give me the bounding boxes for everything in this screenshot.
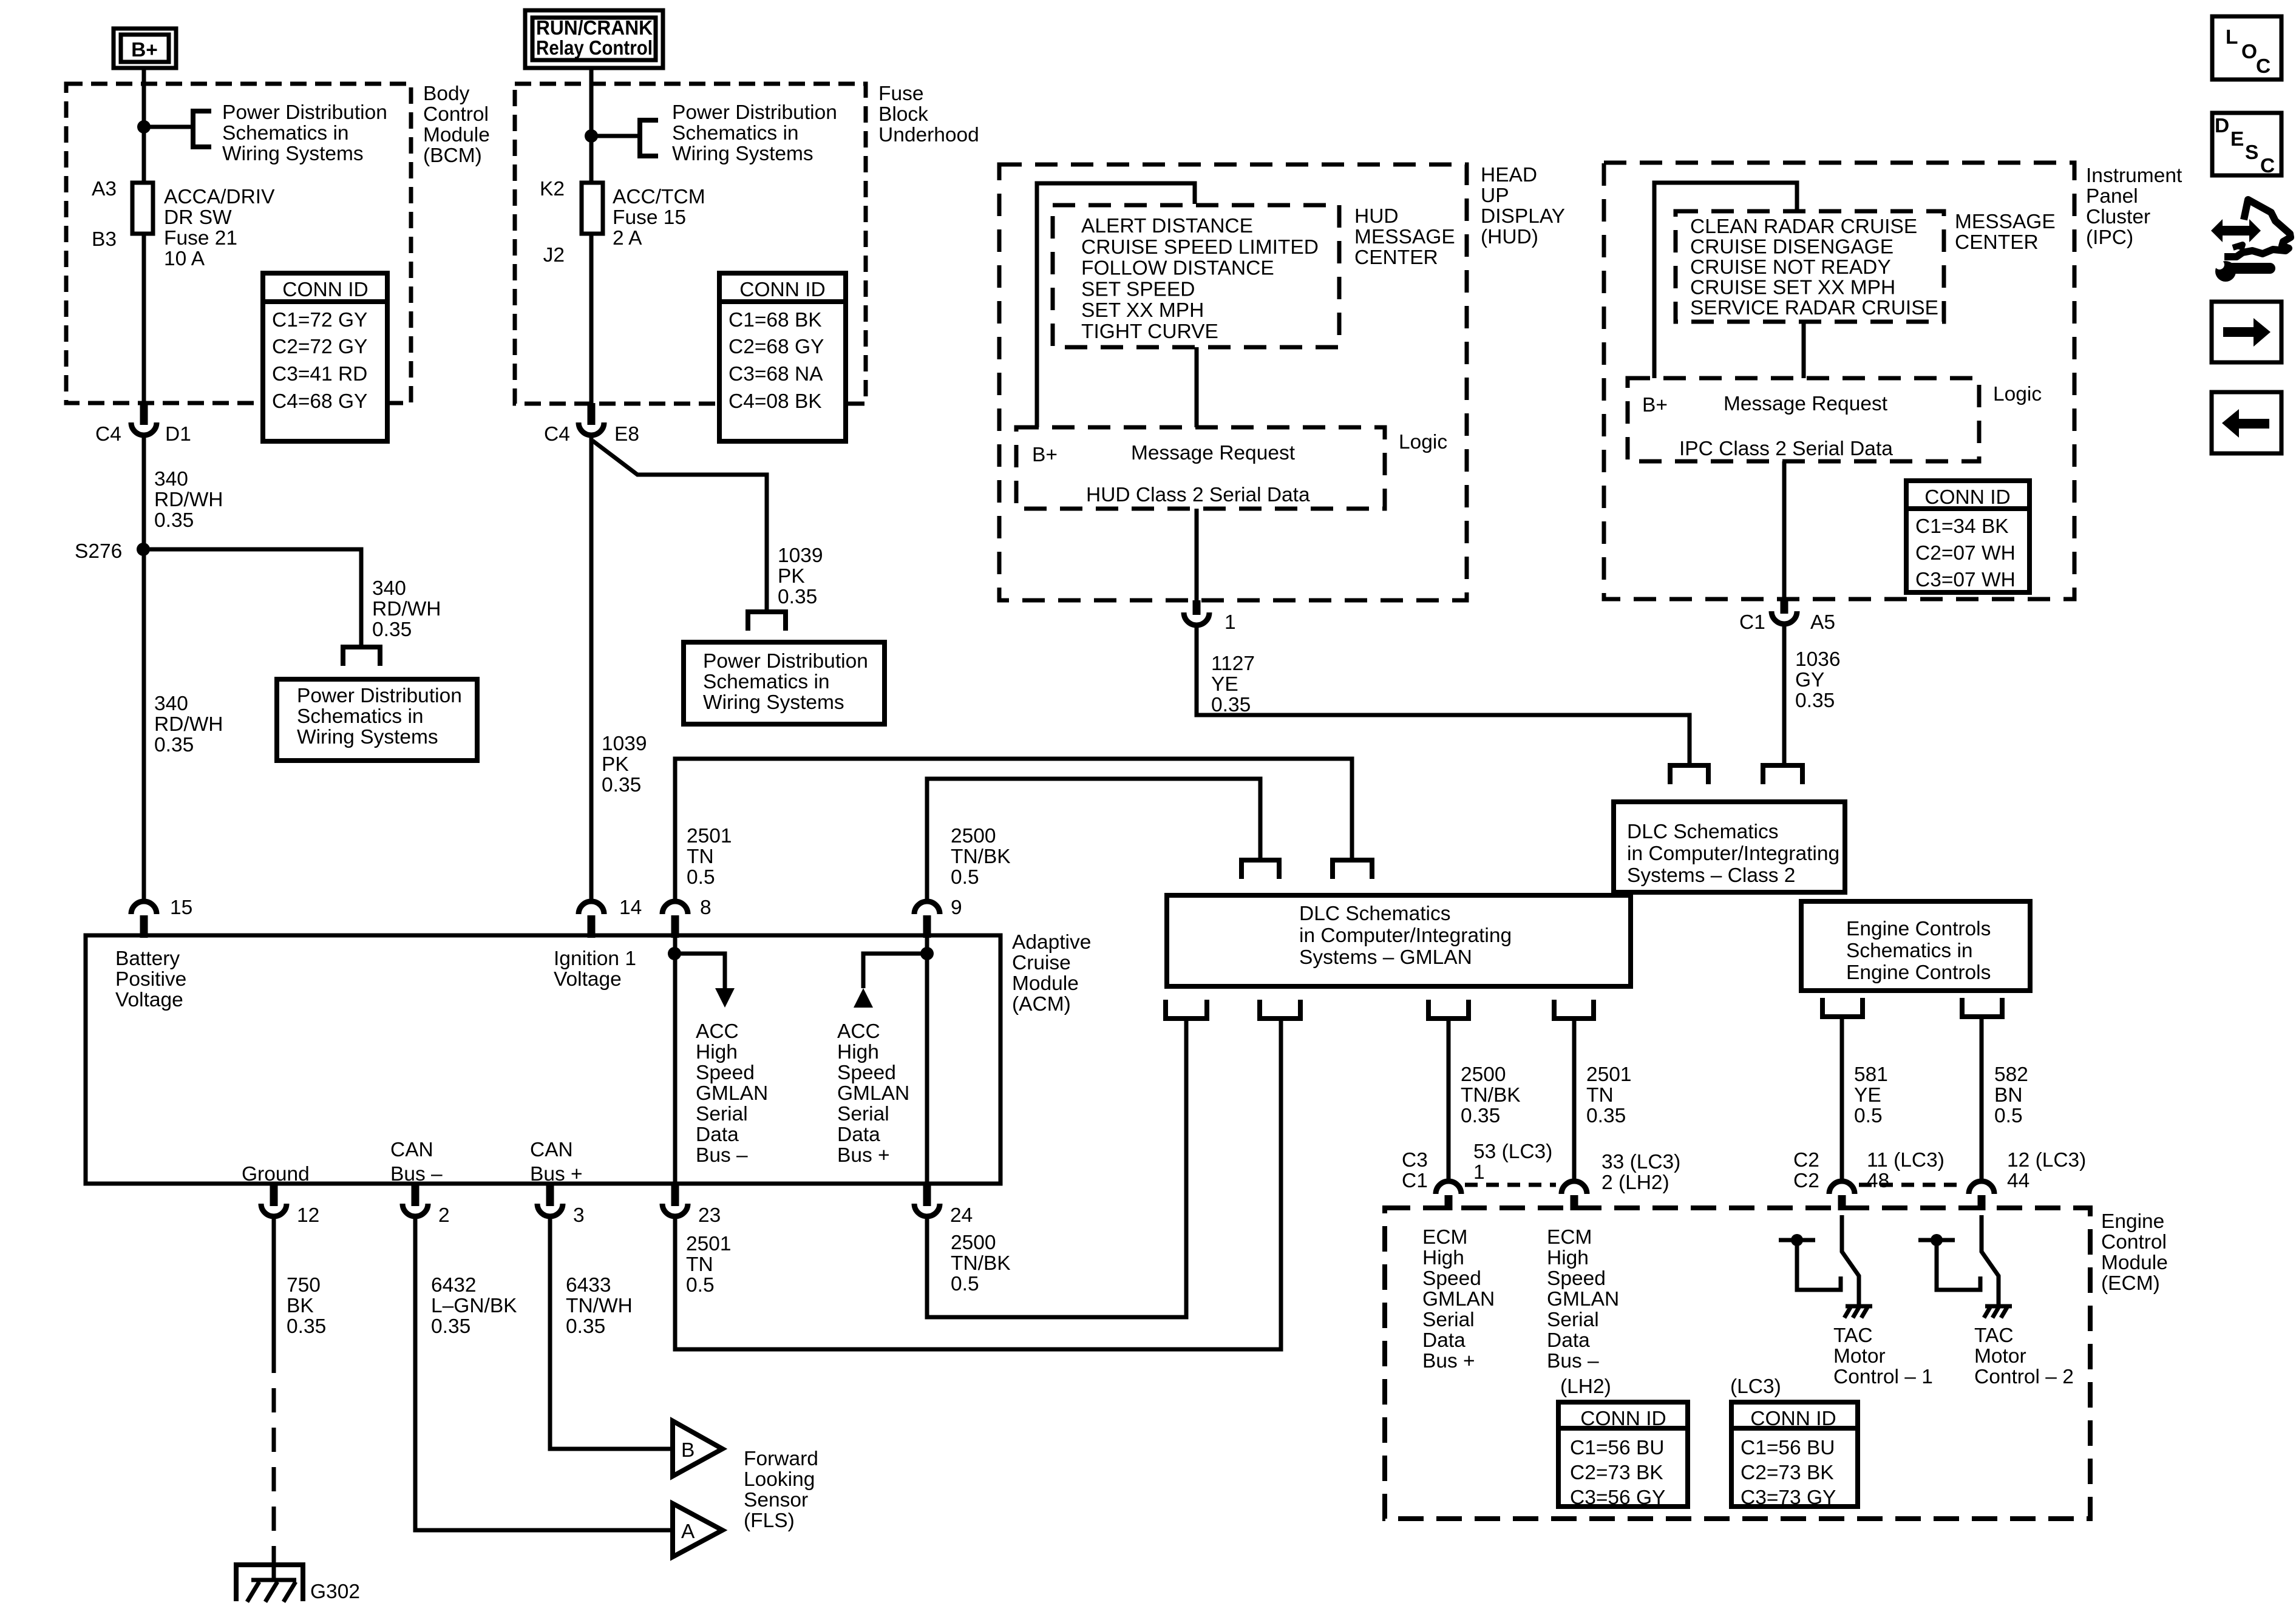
off-page reference (1127 YE into DLC class 2) bbox=[1670, 765, 1708, 784]
CONN ID table (LC3) bbox=[1731, 1402, 1858, 1509]
svg-text:Module: Module bbox=[423, 124, 490, 146]
svg-text:C2: C2 bbox=[1793, 1149, 1819, 1171]
svg-text:0.5: 0.5 bbox=[687, 866, 715, 889]
svg-text:CLEAN RADAR CRUISE: CLEAN RADAR CRUISE bbox=[1690, 215, 1917, 238]
svg-text:Fuse 21: Fuse 21 bbox=[164, 227, 237, 249]
TAC motor control - 2 driver circuit bbox=[1918, 1215, 2012, 1318]
svg-text:C2=73 BK: C2=73 BK bbox=[1570, 1462, 1663, 1484]
svg-text:48: 48 bbox=[1867, 1170, 1889, 1192]
svg-text:15: 15 bbox=[170, 897, 192, 919]
wire branch to power distribution reference bbox=[144, 125, 193, 129]
junction node in BCM bbox=[137, 120, 151, 134]
wire label 2500 TN/BK upper bbox=[951, 825, 1011, 889]
forward arrow icon box bbox=[2212, 302, 2281, 362]
svg-text:ACC: ACC bbox=[837, 1020, 880, 1043]
svg-text:High: High bbox=[696, 1041, 738, 1063]
wire 6433 TN/WH from pin 3 to FLS B bbox=[550, 1218, 670, 1449]
svg-text:MESSAGE: MESSAGE bbox=[1955, 211, 2056, 233]
svg-text:Positive: Positive bbox=[115, 968, 186, 991]
svg-text:A: A bbox=[681, 1520, 695, 1543]
svg-text:Underhood: Underhood bbox=[878, 124, 979, 146]
wire label 6432 L-GN/BK bbox=[431, 1274, 517, 1338]
svg-text:Control – 2: Control – 2 bbox=[1974, 1366, 2074, 1388]
svg-text:ECM: ECM bbox=[1547, 1226, 1592, 1249]
svg-text:0.35: 0.35 bbox=[154, 734, 194, 756]
svg-text:Schematics in: Schematics in bbox=[222, 122, 349, 144]
svg-text:2500: 2500 bbox=[1461, 1063, 1506, 1086]
label ECM GMLAN bus + bbox=[1422, 1226, 1495, 1372]
DLC schematics GMLAN box bbox=[1167, 895, 1631, 986]
wire label 340 RD/WH upper bbox=[154, 468, 223, 532]
svg-text:C1=34 BK: C1=34 BK bbox=[1915, 515, 2009, 538]
ACM pin 12 connector bbox=[261, 1184, 287, 1216]
head up display dashed box bbox=[999, 164, 1467, 600]
svg-text:581: 581 bbox=[1854, 1063, 1888, 1086]
svg-text:3: 3 bbox=[573, 1204, 585, 1227]
svg-text:6432: 6432 bbox=[431, 1274, 477, 1297]
svg-text:RD/WH: RD/WH bbox=[372, 598, 441, 620]
svg-text:0.35: 0.35 bbox=[287, 1315, 326, 1338]
svg-text:Serial: Serial bbox=[696, 1103, 748, 1125]
wire 340 RD/WH down to splice S276 and ACM pin 15 bbox=[142, 436, 146, 900]
label power distribution schematics (fuse block) bbox=[672, 101, 837, 165]
CONN ID table (IPC) bbox=[1906, 481, 2029, 592]
svg-text:9: 9 bbox=[951, 897, 962, 919]
label ignition 1 voltage bbox=[554, 947, 636, 991]
svg-text:TN: TN bbox=[1586, 1084, 1614, 1107]
label message center (IPC) bbox=[1955, 211, 2056, 254]
svg-text:2 A: 2 A bbox=[613, 227, 642, 249]
svg-text:340: 340 bbox=[372, 577, 406, 600]
svg-text:10 A: 10 A bbox=[164, 248, 205, 270]
svg-text:GMLAN: GMLAN bbox=[1422, 1288, 1495, 1310]
svg-text:RUN/CRANK: RUN/CRANK bbox=[536, 17, 653, 39]
svg-text:CENTER: CENTER bbox=[1354, 246, 1438, 269]
svg-text:C1=72 GY: C1=72 GY bbox=[272, 309, 367, 331]
svg-text:Serial: Serial bbox=[1422, 1309, 1475, 1331]
svg-text:(BCM): (BCM) bbox=[423, 144, 482, 167]
ACM pin 8 connector bbox=[662, 901, 688, 938]
svg-text:B: B bbox=[681, 1439, 695, 1462]
off-page reference below engine controls (582 BN) bbox=[1962, 998, 2002, 1017]
svg-text:C3=56 GY: C3=56 GY bbox=[1570, 1486, 1665, 1509]
svg-text:2501: 2501 bbox=[1586, 1063, 1632, 1086]
svg-text:CRUISE SPEED LIMITED: CRUISE SPEED LIMITED bbox=[1081, 236, 1319, 259]
text power distribution box middle bbox=[703, 650, 868, 714]
svg-text:Control – 1: Control – 1 bbox=[1833, 1366, 1933, 1388]
label fuse 21 bbox=[164, 186, 275, 270]
svg-text:Wiring Systems: Wiring Systems bbox=[703, 691, 844, 714]
svg-text:Message Request: Message Request bbox=[1724, 393, 1888, 415]
svg-text:C3=07 WH: C3=07 WH bbox=[1915, 569, 2016, 591]
svg-text:Fuse 15: Fuse 15 bbox=[613, 206, 686, 229]
svg-text:0.35: 0.35 bbox=[778, 586, 817, 608]
wire label 582 BN bbox=[1994, 1063, 2028, 1127]
svg-text:PK: PK bbox=[602, 753, 629, 776]
svg-text:TIGHT CURVE: TIGHT CURVE bbox=[1081, 320, 1218, 343]
connector C4/D1 (BCM) bbox=[131, 403, 157, 435]
ACM pin 24 connector bbox=[914, 1184, 940, 1216]
svg-text:GMLAN: GMLAN bbox=[1547, 1288, 1619, 1310]
svg-text:ACCA/DRIV: ACCA/DRIV bbox=[164, 186, 275, 208]
svg-text:14: 14 bbox=[619, 897, 642, 919]
HUD message list dashed box bbox=[1053, 205, 1339, 347]
svg-text:E: E bbox=[2230, 128, 2244, 151]
text DLC schematics class 2 bbox=[1627, 821, 1839, 887]
svg-text:O: O bbox=[2241, 41, 2257, 63]
svg-text:C1: C1 bbox=[1402, 1170, 1428, 1192]
IPC message center text list bbox=[1690, 215, 1938, 319]
svg-text:CRUISE NOT READY: CRUISE NOT READY bbox=[1690, 256, 1891, 279]
wire label 6433 TN/WH bbox=[566, 1274, 633, 1338]
svg-text:(HUD): (HUD) bbox=[1481, 226, 1538, 248]
DESC icon box bbox=[2212, 113, 2281, 177]
svg-text:Cruise: Cruise bbox=[1012, 952, 1071, 974]
svg-text:ACC: ACC bbox=[696, 1020, 739, 1043]
label fuse block underhood bbox=[878, 83, 979, 146]
wire label 1039 PK upper bbox=[778, 544, 823, 608]
wire label 2500 TN/BK (ECM) bbox=[1461, 1063, 1521, 1127]
svg-text:C3=73 GY: C3=73 GY bbox=[1741, 1486, 1836, 1509]
wire 750 BK from pin 12 (solid part) bbox=[272, 1218, 276, 1349]
label CAN bus + (ACM) bbox=[530, 1139, 583, 1185]
svg-text:Block: Block bbox=[878, 103, 928, 126]
forward looking sensor triangle B bbox=[673, 1421, 722, 1476]
svg-text:Serial: Serial bbox=[1547, 1309, 1599, 1331]
svg-text:C2: C2 bbox=[1793, 1170, 1819, 1192]
off-page reference below GMLAN (to ACM pin 24) bbox=[1166, 1000, 1207, 1019]
svg-text:Module: Module bbox=[1012, 972, 1079, 995]
back arrow icon box bbox=[2212, 392, 2281, 453]
svg-text:2 (LH2): 2 (LH2) bbox=[1601, 1171, 1669, 1194]
body control module dashed box bbox=[66, 84, 411, 403]
wire 2500 TN/BK from pin 24 to GMLAN reference bbox=[927, 1020, 1186, 1317]
svg-text:BN: BN bbox=[1994, 1084, 2023, 1107]
svg-text:ALERT DISTANCE: ALERT DISTANCE bbox=[1081, 215, 1253, 237]
label adaptive cruise module bbox=[1012, 931, 1091, 1015]
svg-text:2501: 2501 bbox=[687, 825, 732, 847]
svg-text:Data: Data bbox=[1547, 1329, 1590, 1352]
off-page reference below GMLAN (2501 TN to ECM) bbox=[1554, 1000, 1594, 1019]
B+ power symbol box bbox=[114, 29, 176, 68]
svg-text:Battery: Battery bbox=[115, 947, 180, 970]
label TAC motor control 2 bbox=[1974, 1324, 2074, 1388]
svg-text:S: S bbox=[2245, 141, 2258, 164]
svg-text:HUD Class 2 Serial Data: HUD Class 2 Serial Data bbox=[1086, 484, 1310, 506]
wire HUD class 2 serial data to connector 1 bbox=[1195, 509, 1199, 600]
svg-text:Systems – GMLAN: Systems – GMLAN bbox=[1299, 946, 1472, 969]
svg-text:in Computer/Integrating: in Computer/Integrating bbox=[1299, 924, 1512, 947]
power distribution schematics box (left) bbox=[277, 679, 477, 761]
svg-text:Speed: Speed bbox=[1547, 1267, 1606, 1290]
svg-text:0.5: 0.5 bbox=[951, 866, 979, 889]
svg-text:(FLS): (FLS) bbox=[744, 1510, 795, 1532]
off-page reference above power distribution box (1039 PK) bbox=[748, 612, 786, 631]
svg-text:23: 23 bbox=[698, 1204, 721, 1227]
wire branch to power distribution reference (fuse block) bbox=[591, 134, 640, 138]
svg-text:Schematics in: Schematics in bbox=[703, 671, 830, 693]
svg-text:BK: BK bbox=[287, 1295, 314, 1317]
svg-text:B+: B+ bbox=[131, 39, 158, 61]
svg-text:Power Distribution: Power Distribution bbox=[672, 101, 837, 124]
label ACC GMLAN bus - (ACM) bbox=[696, 1020, 768, 1167]
svg-text:B3: B3 bbox=[92, 228, 117, 251]
svg-text:Wiring Systems: Wiring Systems bbox=[297, 726, 438, 748]
svg-text:Bus –: Bus – bbox=[1547, 1350, 1599, 1372]
svg-text:HEAD: HEAD bbox=[1481, 164, 1537, 186]
wire HUD message list to logic box bbox=[1195, 347, 1199, 427]
HUD message center text list bbox=[1081, 215, 1319, 343]
svg-text:CRUISE SET XX MPH: CRUISE SET XX MPH bbox=[1690, 277, 1895, 299]
ACM pin 9 connector bbox=[914, 901, 940, 938]
svg-text:Logic: Logic bbox=[1399, 431, 1447, 453]
svg-text:53 (LC3): 53 (LC3) bbox=[1473, 1141, 1552, 1163]
ECM connector pin 12 bbox=[1969, 1181, 1994, 1210]
svg-text:(LC3): (LC3) bbox=[1730, 1375, 1781, 1398]
wire 1036 GY to DLC class 2 reference bbox=[1782, 624, 1787, 765]
svg-text:1: 1 bbox=[1224, 611, 1236, 634]
wire branch from S276 to power distribution bbox=[143, 549, 361, 647]
svg-text:(ECM): (ECM) bbox=[2101, 1272, 2160, 1295]
label fuse 15 bbox=[613, 186, 705, 249]
svg-text:0.35: 0.35 bbox=[1586, 1105, 1626, 1127]
svg-text:Schematics in: Schematics in bbox=[672, 122, 799, 144]
off-page reference below engine controls (581 YE) bbox=[1822, 998, 1863, 1017]
dashed connector line between ECM TAC connectors bbox=[1859, 1183, 1965, 1187]
fuse block underhood dashed box bbox=[515, 84, 866, 404]
svg-text:YE: YE bbox=[1211, 673, 1238, 696]
svg-text:0.35: 0.35 bbox=[431, 1315, 470, 1338]
svg-text:(ACM): (ACM) bbox=[1012, 993, 1071, 1015]
text power distribution schematics box bbox=[297, 685, 462, 748]
svg-text:2500: 2500 bbox=[951, 1232, 996, 1254]
svg-text:0.35: 0.35 bbox=[602, 774, 641, 796]
svg-text:340: 340 bbox=[154, 693, 188, 715]
connector C1/A5 (IPC) bbox=[1771, 599, 1797, 624]
svg-text:Speed: Speed bbox=[696, 1062, 755, 1084]
svg-text:CONN ID: CONN ID bbox=[739, 279, 825, 301]
ACM internal junction (bus +) bbox=[920, 947, 934, 960]
off-page reference into DLC GMLAN (2500 TN/BK) bbox=[1241, 860, 1279, 879]
off-page reference symbol (fuse block power distribution) bbox=[640, 120, 658, 156]
svg-text:0.5: 0.5 bbox=[951, 1273, 979, 1295]
svg-text:Module: Module bbox=[2101, 1252, 2168, 1274]
svg-text:Power Distribution: Power Distribution bbox=[297, 685, 462, 707]
svg-text:CAN: CAN bbox=[390, 1139, 433, 1161]
svg-text:CONN ID: CONN ID bbox=[1924, 486, 2010, 509]
IPC logic dashed box bbox=[1628, 378, 1979, 461]
svg-text:0.35: 0.35 bbox=[1461, 1105, 1500, 1127]
wire label 340 RD/WH lower bbox=[154, 693, 223, 756]
svg-text:E8: E8 bbox=[614, 423, 639, 446]
svg-text:0.35: 0.35 bbox=[1211, 694, 1251, 716]
svg-text:PK: PK bbox=[778, 565, 805, 588]
off-page reference below GMLAN (to ACM pin 23) bbox=[1260, 1000, 1300, 1019]
svg-text:Engine: Engine bbox=[2101, 1210, 2164, 1233]
svg-text:1: 1 bbox=[1473, 1161, 1485, 1184]
svg-text:B+: B+ bbox=[1642, 394, 1668, 416]
dashed connector line between ECM serial data connectors bbox=[1465, 1183, 1556, 1187]
wire 2501 TN from pin 8 up and over to GMLAN reference bbox=[675, 759, 1352, 900]
wire 582 BN engine controls to ECM bbox=[1980, 1017, 1984, 1179]
svg-text:Serial: Serial bbox=[837, 1103, 889, 1125]
wire label 2500 TN/BK lower bbox=[951, 1232, 1011, 1295]
wire 2500 TN/BK from pin 9 up and over to GMLAN reference bbox=[927, 779, 1260, 900]
wire 1039 PK from C4/E8 to ACM pin 14 bbox=[589, 436, 594, 900]
svg-text:C4: C4 bbox=[544, 423, 570, 446]
svg-text:0.5: 0.5 bbox=[686, 1274, 715, 1297]
svg-text:Bus +: Bus + bbox=[837, 1144, 890, 1167]
svg-text:Schematics in: Schematics in bbox=[297, 705, 424, 728]
off-page reference below GMLAN (2500 TN/BK to ECM) bbox=[1428, 1000, 1469, 1019]
ground G302 symbol bbox=[236, 1565, 303, 1602]
svg-text:Bus +: Bus + bbox=[530, 1163, 583, 1185]
svg-text:ACC/TCM: ACC/TCM bbox=[613, 186, 705, 208]
svg-text:Control: Control bbox=[423, 103, 489, 126]
wire label 1036 GY bbox=[1795, 648, 1841, 712]
svg-text:High: High bbox=[1547, 1247, 1589, 1269]
svg-text:Power Distribution: Power Distribution bbox=[222, 101, 387, 124]
vehicle with wrench icon bbox=[2211, 200, 2291, 282]
svg-text:YE: YE bbox=[1854, 1084, 1881, 1107]
label body control module bbox=[423, 83, 490, 167]
svg-text:CENTER: CENTER bbox=[1955, 231, 2039, 254]
svg-text:FOLLOW DISTANCE: FOLLOW DISTANCE bbox=[1081, 257, 1274, 280]
svg-text:Cluster: Cluster bbox=[2086, 206, 2150, 228]
engine controls schematics box bbox=[1801, 901, 2030, 991]
svg-text:UP: UP bbox=[1481, 185, 1509, 207]
ECM connector pin 33 bbox=[1561, 1181, 1587, 1210]
ACM internal junction (bus -) bbox=[668, 947, 681, 960]
IPC message list dashed box bbox=[1676, 211, 1944, 322]
svg-text:Relay Control: Relay Control bbox=[536, 37, 653, 59]
power distribution schematics box (middle) bbox=[684, 642, 885, 724]
adaptive cruise module box bbox=[86, 935, 1000, 1184]
svg-text:Fuse: Fuse bbox=[878, 83, 923, 105]
svg-text:0.35: 0.35 bbox=[154, 509, 194, 532]
svg-text:0.35: 0.35 bbox=[372, 619, 412, 641]
label power distribution schematics (BCM) bbox=[222, 101, 387, 165]
label forward looking sensor bbox=[744, 1448, 818, 1532]
svg-text:DLC Schematics: DLC Schematics bbox=[1627, 821, 1778, 843]
svg-text:Schematics in: Schematics in bbox=[1846, 940, 1973, 962]
label TAC motor control 1 bbox=[1833, 1324, 1933, 1388]
svg-text:CRUISE DISENGAGE: CRUISE DISENGAGE bbox=[1690, 236, 1894, 259]
svg-text:GY: GY bbox=[1795, 669, 1824, 691]
svg-text:Bus –: Bus – bbox=[696, 1144, 748, 1167]
svg-text:Message Request: Message Request bbox=[1131, 442, 1296, 464]
ECM connector C1 pin 53 bbox=[1436, 1181, 1461, 1210]
svg-text:TN: TN bbox=[687, 846, 714, 868]
wire 1039 PK branch diagonal to power distribution bbox=[593, 441, 767, 612]
svg-text:Bus +: Bus + bbox=[1422, 1350, 1475, 1372]
svg-text:1127: 1127 bbox=[1211, 653, 1255, 675]
wire 2501 TN GMLAN to ECM bbox=[1572, 1019, 1577, 1179]
svg-text:Body: Body bbox=[423, 83, 470, 105]
off-page reference into DLC GMLAN (2501 TN) bbox=[1333, 860, 1372, 879]
svg-text:TN/BK: TN/BK bbox=[1461, 1084, 1521, 1107]
svg-text:6433: 6433 bbox=[566, 1274, 611, 1297]
svg-text:C1=56 BU: C1=56 BU bbox=[1741, 1437, 1835, 1459]
svg-text:Control: Control bbox=[2101, 1231, 2167, 1253]
svg-text:B+: B+ bbox=[1032, 444, 1058, 466]
svg-text:TN/BK: TN/BK bbox=[951, 846, 1011, 868]
svg-text:SET XX MPH: SET XX MPH bbox=[1081, 299, 1204, 322]
wire label 2501 TN upper bbox=[687, 825, 732, 889]
svg-text:High: High bbox=[1422, 1247, 1464, 1269]
svg-text:12 (LC3): 12 (LC3) bbox=[2007, 1149, 2086, 1171]
ACM pin 14 connector bbox=[579, 901, 604, 938]
svg-text:DLC Schematics: DLC Schematics bbox=[1299, 903, 1450, 925]
svg-text:2: 2 bbox=[438, 1204, 450, 1227]
svg-text:TN: TN bbox=[686, 1253, 713, 1276]
svg-text:0.35: 0.35 bbox=[566, 1315, 605, 1338]
svg-text:C3=68 NA: C3=68 NA bbox=[729, 363, 823, 385]
TAC motor control - 1 driver circuit bbox=[1779, 1215, 1872, 1318]
ACM pin 15 connector bbox=[131, 901, 157, 938]
svg-text:Motor: Motor bbox=[1974, 1345, 2026, 1368]
LOC icon box bbox=[2212, 16, 2281, 80]
svg-text:C4: C4 bbox=[95, 423, 121, 446]
label instrument panel cluster bbox=[2086, 164, 2182, 249]
wire B+ to BCM fuse and connector C4 bbox=[142, 69, 146, 403]
off-page reference symbol (power distribution) bbox=[193, 111, 211, 147]
svg-text:RD/WH: RD/WH bbox=[154, 489, 223, 511]
wire IPC class 2 serial data to connector C1/A5 bbox=[1782, 461, 1787, 599]
svg-text:Motor: Motor bbox=[1833, 1345, 1886, 1368]
CONN ID table (fuse block) bbox=[719, 273, 846, 441]
svg-text:C1: C1 bbox=[1739, 611, 1765, 634]
svg-text:Speed: Speed bbox=[837, 1062, 896, 1084]
svg-text:L: L bbox=[2226, 26, 2238, 49]
svg-text:340: 340 bbox=[154, 468, 188, 490]
svg-text:C3=41 RD: C3=41 RD bbox=[272, 363, 367, 385]
svg-text:C4=68 GY: C4=68 GY bbox=[272, 390, 367, 413]
svg-text:L–GN/BK: L–GN/BK bbox=[431, 1295, 517, 1317]
svg-text:24: 24 bbox=[950, 1204, 973, 1227]
svg-text:582: 582 bbox=[1994, 1063, 2028, 1086]
svg-text:CONN ID: CONN ID bbox=[282, 279, 368, 301]
svg-text:C: C bbox=[2256, 55, 2271, 78]
svg-text:J2: J2 bbox=[543, 244, 565, 266]
svg-text:C2=07 WH: C2=07 WH bbox=[1915, 542, 2016, 564]
svg-text:Instrument: Instrument bbox=[2086, 164, 2182, 187]
svg-text:Power Distribution: Power Distribution bbox=[703, 650, 868, 673]
svg-text:1039: 1039 bbox=[602, 733, 647, 755]
ACM internal arrow (bus +) bbox=[854, 954, 927, 1008]
svg-text:RD/WH: RD/WH bbox=[154, 713, 223, 736]
svg-text:Engine Controls: Engine Controls bbox=[1846, 918, 1991, 940]
svg-text:(IPC): (IPC) bbox=[2086, 226, 2133, 249]
svg-text:Voltage: Voltage bbox=[115, 989, 183, 1011]
HUD internal B+ feed line bbox=[1037, 183, 1195, 427]
fuse ACC/TCM Fuse 15 bbox=[582, 183, 603, 234]
svg-text:C1=68 BK: C1=68 BK bbox=[729, 309, 822, 331]
wire 2500 TN/BK GMLAN to ECM bbox=[1447, 1019, 1451, 1179]
svg-text:ECM: ECM bbox=[1422, 1226, 1467, 1249]
label head up display bbox=[1481, 164, 1565, 248]
svg-text:MESSAGE: MESSAGE bbox=[1354, 226, 1455, 248]
svg-text:44: 44 bbox=[2007, 1170, 2029, 1192]
svg-text:Wiring Systems: Wiring Systems bbox=[222, 143, 364, 165]
wire label 581 YE bbox=[1854, 1063, 1888, 1127]
instrument panel cluster dashed box bbox=[1604, 163, 2074, 599]
svg-text:C3: C3 bbox=[1402, 1149, 1428, 1171]
svg-text:8: 8 bbox=[700, 897, 712, 919]
svg-text:D: D bbox=[2215, 115, 2229, 137]
svg-text:SERVICE RADAR CRUISE: SERVICE RADAR CRUISE bbox=[1690, 297, 1938, 319]
wire label 2501 TN lower bbox=[686, 1233, 732, 1297]
